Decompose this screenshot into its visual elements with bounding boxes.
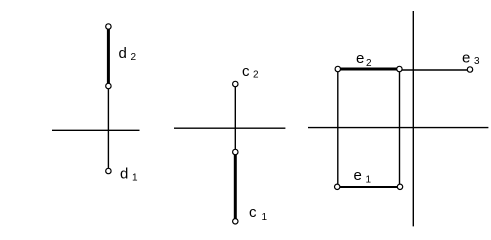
node d2 top point — [106, 24, 111, 29]
svg-text:1: 1 — [262, 212, 268, 223]
svg-text:1: 1 — [366, 175, 372, 186]
projection line d (thin) — [107, 86, 109, 170]
node e3 point — [467, 67, 472, 72]
node e2 left point — [335, 66, 340, 71]
figure E: vertical axis — [412, 11, 414, 226]
node c1 point — [233, 219, 238, 224]
svg-text:2: 2 — [253, 70, 259, 81]
svg-text:d: d — [120, 166, 128, 183]
svg-text:2: 2 — [366, 58, 372, 69]
svg-text:3: 3 — [474, 56, 480, 67]
node e1 right point — [397, 184, 402, 189]
svg-text:1: 1 — [132, 173, 138, 184]
node c2 point — [233, 81, 238, 86]
rectangle right side (projection line) — [399, 71, 401, 185]
segment c1 (horizontal projection, thick) — [234, 153, 237, 220]
link line to e3 — [402, 69, 467, 71]
segment e1 (bottom edge) — [340, 186, 398, 188]
node d1 point — [106, 168, 111, 173]
rectangle left side (projection line) — [337, 71, 339, 185]
svg-text:e: e — [354, 167, 362, 184]
figure E: horizontal axis — [308, 127, 488, 129]
svg-text:c: c — [249, 204, 257, 221]
figure D: ground line (x-axis) — [52, 129, 140, 131]
figure C: ground line (x-axis) — [174, 127, 285, 129]
node e1 left point — [335, 184, 340, 189]
svg-text:c: c — [242, 63, 250, 80]
svg-text:d: d — [119, 45, 127, 62]
node c middle point — [233, 149, 238, 154]
svg-text:e: e — [356, 50, 364, 67]
segment d2 (frontal projection, thick) — [107, 27, 110, 85]
svg-text:2: 2 — [131, 52, 137, 63]
segment e2 (top edge, thick) — [340, 68, 398, 71]
projection line c (thin) — [234, 85, 236, 151]
node e2 right point — [397, 66, 402, 71]
node d2 bottom point — [106, 83, 111, 88]
svg-text:e: e — [462, 50, 470, 67]
